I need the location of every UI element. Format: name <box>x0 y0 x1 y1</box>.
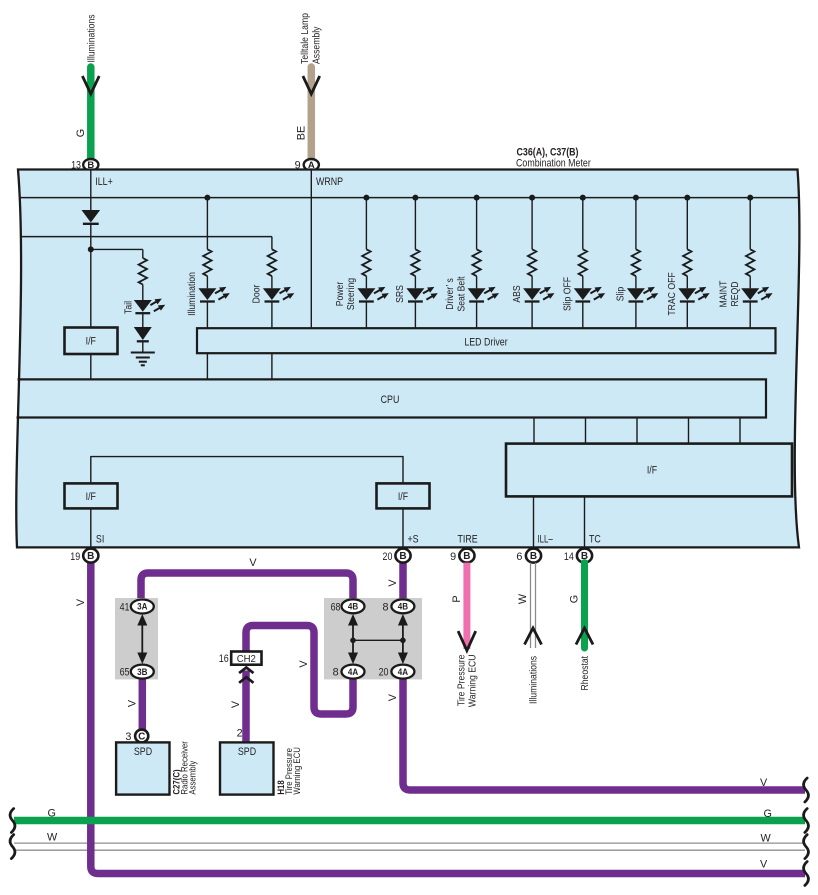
svg-text:REQD: REQD <box>730 282 741 307</box>
label: G right <box>764 808 772 820</box>
wire: LED to diode (Tail) <box>142 313 144 327</box>
svg-text:16: 16 <box>219 653 229 665</box>
break: G bus left <box>10 809 15 833</box>
svg-text:V: V <box>298 660 310 668</box>
wire: top bus <box>20 197 799 199</box>
label: Slip (rotated) <box>616 287 627 302</box>
wire: resistor to LED (Slip) <box>635 276 637 288</box>
IC LED Driver <box>197 328 776 353</box>
svg-text:Assembly: Assembly <box>312 26 323 64</box>
break: W bus left <box>10 835 15 859</box>
resistor R (SRS) <box>411 249 419 276</box>
wire: SRS branch drop <box>414 198 416 250</box>
LED Power Steering <box>357 287 388 302</box>
svg-text:I/F: I/F <box>86 491 97 503</box>
node: bus junction for Driver's Seat Belt <box>474 195 480 201</box>
svg-text:MAINT: MAINT <box>719 280 730 307</box>
svg-text:Tire Pressure: Tire Pressure <box>457 654 468 706</box>
svg-text:LED Driver: LED Driver <box>464 337 508 349</box>
svg-text:8: 8 <box>333 667 339 679</box>
label: W left <box>47 832 58 844</box>
wire: V CH2 to H18 pin 2 <box>242 671 250 744</box>
LED Door <box>263 287 294 302</box>
svg-text:4A: 4A <box>348 667 358 678</box>
wire: V junction 20(4A) down to V bus <box>403 676 805 790</box>
junction 8 (4B) <box>382 599 414 613</box>
break: V bus right (upper) <box>804 778 809 802</box>
wire: V pin 20 to junction 8(4B) <box>399 562 407 601</box>
LED SRS <box>406 287 437 302</box>
diode D (ILL+) <box>82 210 101 224</box>
svg-text:TRAC OFF: TRAC OFF <box>667 272 678 315</box>
component C27(C) Radio Receiver Assembly <box>116 730 169 795</box>
svg-text:TIRE: TIRE <box>458 533 478 545</box>
label: W right <box>761 833 772 845</box>
label: TC net <box>589 533 601 545</box>
wire: LED to LED driver (TRAC OFF) <box>686 302 688 329</box>
wire: Door branch drop <box>271 237 273 250</box>
wire: 4B-4A internal link <box>350 638 406 644</box>
svg-text:Illuminations: Illuminations <box>86 14 97 62</box>
svg-text:Driver’ s: Driver’ s <box>445 278 456 310</box>
LED MAINT REQD <box>741 287 772 302</box>
svg-text:V: V <box>230 700 242 708</box>
diode D (Tail) <box>134 327 152 341</box>
wire: Driver's Seat Belt branch drop <box>476 198 478 250</box>
svg-text:W: W <box>761 833 772 845</box>
svg-text:Steering: Steering <box>346 278 357 310</box>
svg-text:W: W <box>47 832 58 844</box>
link arrows 8(4B)-20(4A) <box>398 614 408 664</box>
svg-text:WRNP: WRNP <box>316 176 343 188</box>
shield chevrons below CH2 <box>239 668 253 683</box>
node: bus junction for Slip <box>633 195 639 201</box>
svg-text:4B: 4B <box>398 602 408 613</box>
resistor R (ABS) <box>528 249 536 276</box>
IC I/F (SI interface) <box>65 483 118 508</box>
wire: Illumination branch drop <box>206 198 208 250</box>
wire: LED to LED driver (Slip) <box>635 302 637 329</box>
wire: CPU to I/F bus line 3 <box>636 418 638 444</box>
wire: CPU to I/F bus line 1 <box>533 418 535 444</box>
wire: G (green) TC to Rheostat <box>581 563 588 648</box>
wire: resistor to LED (Driver's Seat Belt) <box>476 276 478 288</box>
wire: P (pink) TIRE to Tire Pressure Warning ECU <box>463 563 470 649</box>
label: G wire color (TC) <box>569 595 581 603</box>
LED ABS <box>523 287 554 302</box>
node: bus junction for Illumination <box>204 195 210 201</box>
label: Tail (rotated) <box>124 301 135 314</box>
svg-text:ABS: ABS <box>512 285 523 302</box>
LED Tail <box>134 299 165 314</box>
node: bus junction for ABS <box>529 195 535 201</box>
label: V on pin20 wire <box>387 579 399 587</box>
svg-text:ILL–: ILL– <box>538 533 553 545</box>
pin 14 (B) TC <box>564 549 592 563</box>
resistor R (Tail) <box>139 258 147 285</box>
label: SI net <box>96 533 104 545</box>
svg-text:Warning ECU: Warning ECU <box>292 747 302 795</box>
wire: W bus (white wire outline) <box>14 843 805 850</box>
svg-text:2: 2 <box>237 728 243 740</box>
resistor R (Slip OFF) <box>579 249 587 276</box>
break: W bus right <box>804 835 809 859</box>
arrow: from Rheostat (up chevron) <box>576 628 593 645</box>
svg-text:W: W <box>517 593 529 604</box>
label: ABS (rotated) <box>512 285 523 302</box>
svg-text:Warning ECU: Warning ECU <box>468 654 479 707</box>
wire: resistor to LED (TRAC OFF) <box>686 276 688 288</box>
label: Tire Pressure Warning ECU (rotated, box) <box>284 747 302 795</box>
svg-text:Rheostat: Rheostat <box>580 656 591 691</box>
wire: resistor to LED (ABS) <box>531 276 533 288</box>
junction 41 (3A) <box>120 600 154 614</box>
svg-text:Tail: Tail <box>124 301 135 314</box>
wire: Slip branch drop <box>635 198 637 250</box>
ground <box>131 353 155 366</box>
wire: SI/+S bridge <box>91 457 403 484</box>
svg-text:G: G <box>75 129 87 137</box>
wire: ABS branch drop <box>531 198 533 250</box>
wire: LED to LED driver (Driver's Seat Belt) <box>476 302 478 329</box>
svg-text:Telltale Lamp: Telltale Lamp <box>300 13 311 64</box>
svg-text:+S: +S <box>408 533 419 545</box>
svg-text:V: V <box>249 557 257 569</box>
resistor R (MAINT REQD) <box>746 249 754 276</box>
pin 13 (B) ILL+ <box>71 159 98 172</box>
label: C27(C) (rotated) <box>171 769 181 794</box>
wire: tail drop <box>142 249 144 258</box>
svg-text:V: V <box>760 859 768 871</box>
label: V on pin19 wire <box>75 598 87 606</box>
wire: resistor to LED (Power Steering) <box>365 276 367 288</box>
wire: CPU to I/F bus line 2 <box>585 418 587 444</box>
label: ILL+ net <box>95 176 113 188</box>
wire: V snake 8(4A) to CH2 <box>246 626 353 715</box>
wire: LED to LED driver (ABS) <box>531 302 533 329</box>
label: G left <box>48 808 56 820</box>
resistor R (TRAC OFF) <box>683 249 691 276</box>
resistor R (Driver's Seat Belt) <box>472 249 480 276</box>
label: MAINT REQD (rotated) <box>719 280 741 307</box>
svg-text:Slip: Slip <box>616 287 627 302</box>
label: Illuminations (rotated, bottom) <box>529 656 540 704</box>
LED Slip OFF <box>574 287 605 302</box>
svg-text:Seat Belt: Seat Belt <box>456 276 467 311</box>
wire: LED to LED driver (MAINT REQD) <box>749 302 751 329</box>
label: Combination Meter <box>516 158 591 170</box>
svg-text:C: C <box>138 731 145 742</box>
svg-text:V: V <box>387 693 399 701</box>
svg-text:14: 14 <box>564 551 574 563</box>
svg-text:19: 19 <box>70 551 80 563</box>
pin 9 (A) WRNP <box>295 159 319 172</box>
svg-text:V: V <box>760 777 768 789</box>
svg-text:V: V <box>387 579 399 587</box>
junction connector block J/C 3 <box>115 598 158 679</box>
connector 16 CH2 <box>219 652 262 665</box>
svg-text:SI: SI <box>96 533 104 545</box>
wire: diode output bus <box>21 236 272 238</box>
wire: LED to LED driver (Power Steering) <box>365 302 367 329</box>
wire: CPU to I/F bus line 4 <box>688 418 690 444</box>
svg-text:B: B <box>87 551 94 562</box>
label: SRS (rotated) <box>395 285 406 303</box>
wire: resistor to LED (Door) <box>271 276 273 288</box>
resistor R (Slip) <box>632 249 640 276</box>
svg-text:V: V <box>75 598 87 606</box>
LED Slip <box>627 287 658 302</box>
svg-text:Power: Power <box>335 281 346 306</box>
wire: resistor to LED (Slip OFF) <box>582 276 584 288</box>
svg-text:G: G <box>569 595 581 603</box>
arrow: from Telltale Lamp Assembly (chevron) <box>303 76 320 94</box>
LED TRAC OFF <box>678 287 709 302</box>
svg-text:P: P <box>451 595 463 602</box>
svg-text:Illuminations: Illuminations <box>529 656 540 704</box>
resistor R (Illumination) <box>203 249 211 276</box>
svg-text:SPD: SPD <box>134 746 152 758</box>
svg-text:20: 20 <box>379 667 389 679</box>
svg-text:65: 65 <box>120 667 130 679</box>
svg-text:Slip OFF: Slip OFF <box>563 277 574 311</box>
label: Driver's Seat Belt (rotated) <box>445 276 467 311</box>
label: V top link <box>249 557 257 569</box>
label: Rheostat (rotated) <box>580 656 591 691</box>
svg-text:8: 8 <box>382 602 388 614</box>
label: C36(A), C37(B) <box>517 147 579 159</box>
label: V right upper <box>760 777 768 789</box>
label: V below 20(4A) <box>387 693 399 701</box>
svg-text:BE: BE <box>295 126 307 140</box>
break: G bus right <box>804 809 809 833</box>
wire: branch to Tail resistor <box>91 248 143 250</box>
wire: CPU to I/F bus line 5 <box>739 418 741 444</box>
label: W wire color <box>517 593 529 604</box>
wire: ILL+ drop <box>90 170 92 211</box>
component H18 Tire Pressure Warning ECU <box>220 728 274 795</box>
svg-text:68: 68 <box>331 602 341 614</box>
svg-text:Assembly: Assembly <box>187 760 197 794</box>
label: Power Steering (rotated) <box>335 278 357 310</box>
label: P wire color <box>451 595 463 602</box>
wire: V from pin 19 (SI) to bottom bus <box>91 562 805 874</box>
wire: I/F to pin 19 <box>90 508 92 549</box>
wire: TRAC OFF branch drop <box>686 198 688 250</box>
junction 65 (3B) <box>120 665 154 679</box>
resistor R (Power Steering) <box>362 249 370 276</box>
svg-text:41: 41 <box>120 602 130 614</box>
IC I/F (output interface) <box>506 444 792 497</box>
wire: resistor to LED (Illumination) <box>206 276 208 288</box>
svg-text:4B: 4B <box>348 602 358 613</box>
label: V on snake wire <box>298 660 310 668</box>
svg-text:G: G <box>48 808 56 820</box>
svg-text:I/F: I/F <box>86 336 97 348</box>
break: V bus right (lower) <box>804 862 809 886</box>
wire: resistor to LED (SRS) <box>414 276 416 288</box>
label: G wire color <box>75 129 87 137</box>
junction 8 (4A) <box>333 665 365 679</box>
pin 9 (B) TIRE <box>450 549 474 563</box>
svg-text:I/F: I/F <box>398 491 409 503</box>
svg-text:3B: 3B <box>137 667 147 678</box>
wire: G (green) from Illuminations to pin 13 <box>87 67 95 161</box>
wire: LED to LED driver (Illumination) <box>206 302 208 329</box>
junction 68 (4B) <box>331 599 365 613</box>
label: TRAC OFF (rotated) <box>667 272 678 315</box>
wire: I/F to pin 6 (ILL-) <box>533 496 535 549</box>
svg-text:3: 3 <box>125 731 131 743</box>
wire: MAINT REQD branch drop <box>749 198 751 250</box>
svg-text:9: 9 <box>450 551 456 563</box>
label: Telltale Lamp Assembly (rotated) <box>300 13 323 64</box>
wire: Slip OFF branch drop <box>582 198 584 250</box>
wire: I/F to pin 14 (TC) <box>584 496 586 549</box>
junction connector block J/C 4 <box>324 598 422 679</box>
junction 20 (4A) <box>379 665 415 679</box>
svg-text:CPU: CPU <box>381 394 400 406</box>
wire: resistor to LED (MAINT REQD) <box>749 276 751 288</box>
node: bus junction for TRAC OFF <box>684 195 690 201</box>
label: Slip OFF (rotated) <box>563 277 574 311</box>
node: tail branch junction <box>88 246 94 252</box>
svg-text:CH2: CH2 <box>237 654 256 665</box>
wire: LED to LED driver (Slip OFF) <box>582 302 584 329</box>
svg-text:Combination Meter: Combination Meter <box>516 158 591 170</box>
svg-text:6: 6 <box>516 551 522 563</box>
label: Illumination (rotated) <box>187 272 198 316</box>
svg-text:SPD: SPD <box>238 746 256 758</box>
link arrows 68(4B)-8(4A) <box>348 614 358 664</box>
svg-text:ILL+: ILL+ <box>95 176 113 188</box>
pin 20 (B) +S <box>383 549 411 563</box>
svg-text:V: V <box>126 699 138 707</box>
pin 19 (B) SI <box>70 549 98 563</box>
IC CPU <box>17 379 767 417</box>
svg-text:B: B <box>530 551 537 562</box>
LED Illumination <box>198 287 229 302</box>
label: WRNP net <box>316 176 343 188</box>
wire: resistor to LED (Tail) <box>142 285 144 301</box>
node: bus junction for Slip OFF <box>580 195 586 201</box>
svg-text:4A: 4A <box>398 667 408 678</box>
wire: W (white) ILL- to Illuminations <box>531 563 536 648</box>
svg-text:Illumination: Illumination <box>187 272 198 316</box>
svg-text:Door: Door <box>252 284 263 303</box>
wire: V link 41(3A) to 68(4B) <box>141 573 353 600</box>
wire: V 65(3B) to radio pin 3 <box>139 676 147 731</box>
svg-text:B: B <box>463 551 470 562</box>
label: H18 (rotated) <box>276 780 286 794</box>
node: bus junction for SRS <box>412 195 418 201</box>
arrow: to Tire Pressure Warning ECU <box>458 631 476 651</box>
IC I/F (illumination interface) <box>65 328 118 355</box>
link arrows 3A-3B <box>137 614 147 664</box>
label: Illuminations (rotated) <box>86 14 97 62</box>
svg-text:B: B <box>399 551 406 562</box>
svg-text:G: G <box>764 808 772 820</box>
wire: diode out to tail junction and I/F <box>90 225 92 328</box>
arrow: from Illuminations (up chevron) <box>525 628 542 645</box>
wire: LED driver to CPU (illumination col) <box>206 353 208 379</box>
wire: BE (beige) from Telltale Lamp Assembly to pin 9 <box>308 67 316 161</box>
wire: WRNP drop to LED driver <box>310 170 312 329</box>
label: V right lower <box>760 859 768 871</box>
node: bus junction for Power Steering <box>363 195 369 201</box>
label: Radio Receiver Assembly (rotated) <box>179 741 197 794</box>
combination meter C36(A), C37(B) outline <box>16 170 799 548</box>
wire: G bus (green) <box>14 817 805 825</box>
label: Tire Pressure Warning ECU (rotated) <box>457 654 479 707</box>
wire: I/F to CPU <box>90 354 92 379</box>
label: V on CH2 wire <box>230 700 242 708</box>
svg-text:TC: TC <box>589 533 601 545</box>
node: bus junction for MAINT REQD <box>747 195 753 201</box>
wire: Power Steering branch drop <box>365 198 367 250</box>
svg-text:20: 20 <box>383 551 393 563</box>
LED Driver's Seat Belt <box>468 287 499 302</box>
label: +S net <box>408 533 419 545</box>
wire: diode to ground (Tail) <box>142 341 144 352</box>
svg-text:I/F: I/F <box>647 465 658 477</box>
svg-text:3A: 3A <box>137 602 147 613</box>
wire: LED to LED driver (Door) <box>271 302 273 329</box>
wire: LED to LED driver (SRS) <box>414 302 416 329</box>
label: BE wire color <box>295 126 307 140</box>
wire: I/F to pin 20 <box>402 508 404 549</box>
label: ILL- net <box>538 533 553 545</box>
arrow: from Illuminations (chevron) <box>82 76 99 94</box>
svg-text:SRS: SRS <box>395 285 406 303</box>
resistor R (Door) <box>268 249 276 276</box>
label: TIRE net <box>458 533 478 545</box>
IC I/F (+S interface) <box>377 483 430 508</box>
wire: LED driver to CPU (door col) <box>271 353 273 379</box>
pin 6 (B) ILL- <box>516 549 541 563</box>
label: V on 3B wire <box>126 699 138 707</box>
label: Door (rotated) <box>252 284 263 303</box>
